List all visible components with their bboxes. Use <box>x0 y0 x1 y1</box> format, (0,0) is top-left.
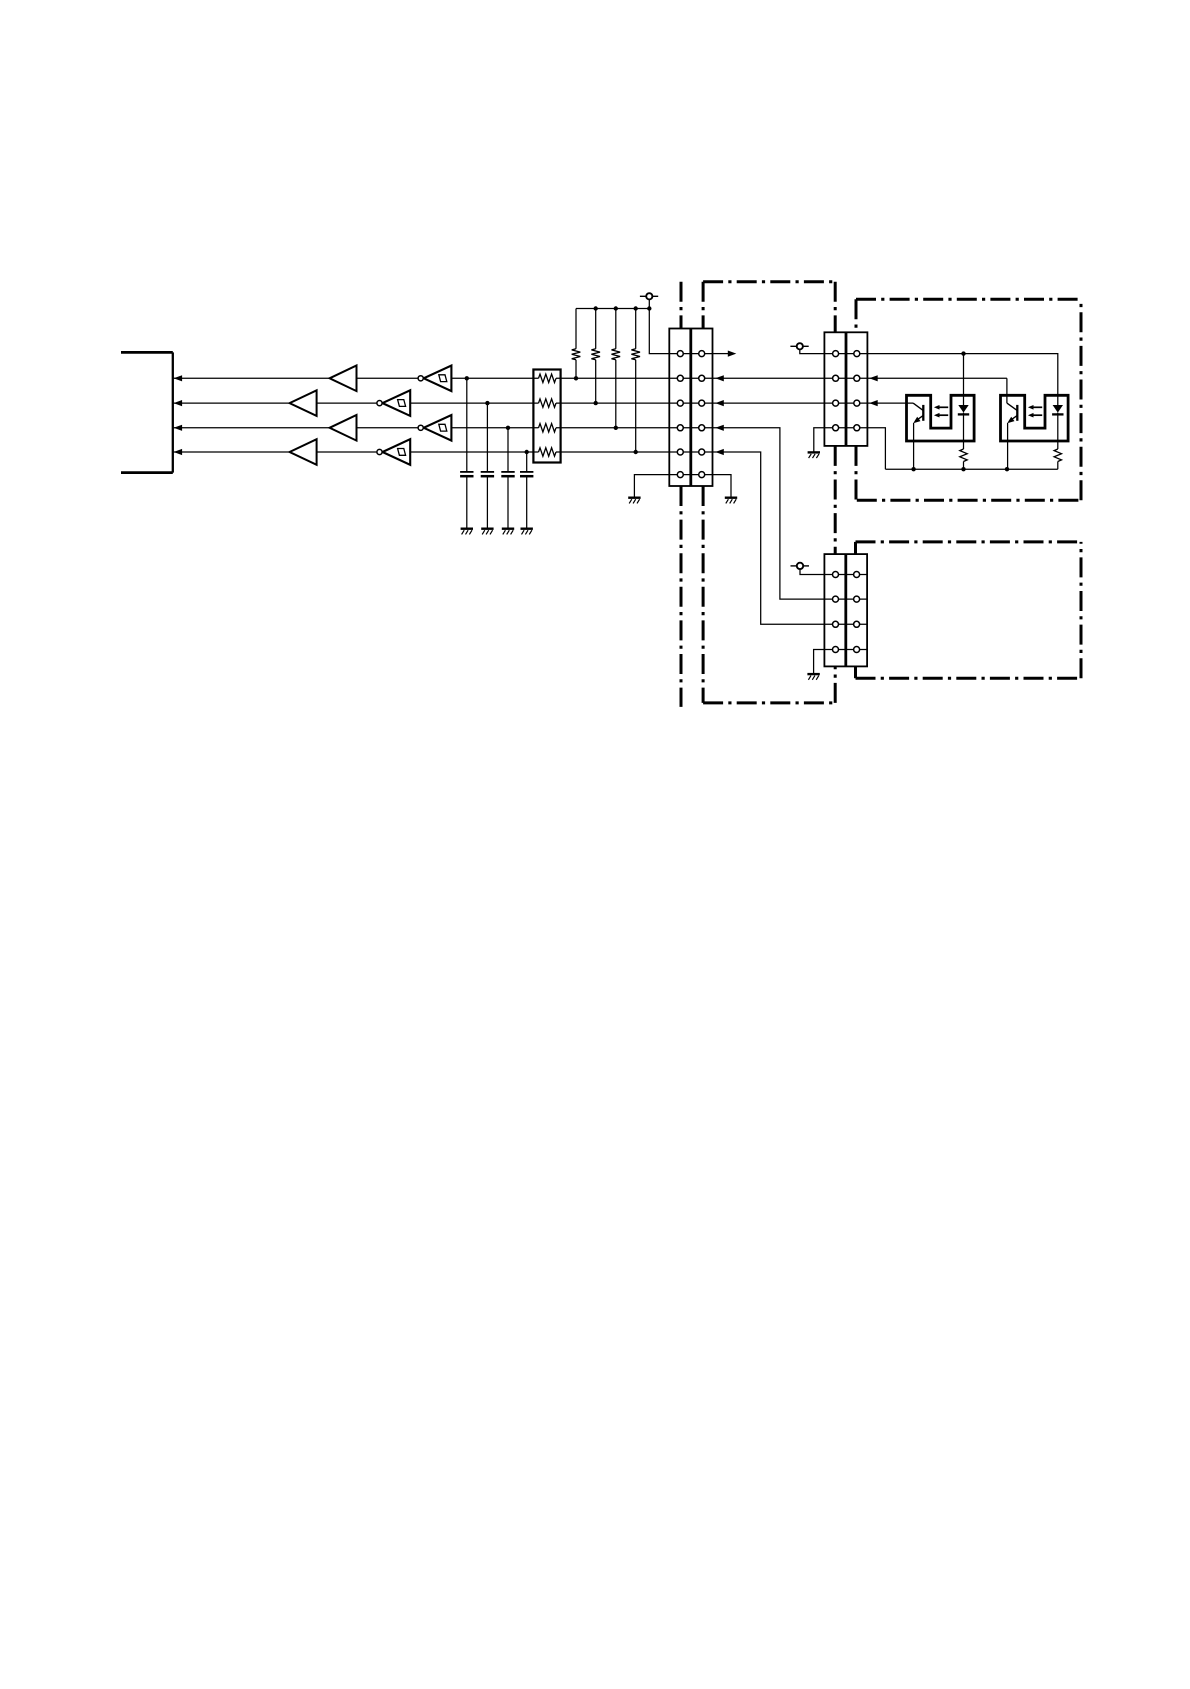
wire <box>713 400 825 406</box>
wire <box>526 476 528 528</box>
wire <box>173 449 289 455</box>
wire <box>451 377 669 379</box>
ground <box>481 529 493 535</box>
light arrows <box>934 405 948 418</box>
node <box>465 376 469 380</box>
LED PC1 <box>958 405 969 414</box>
wire <box>507 428 509 472</box>
capacitor C2 <box>481 472 494 476</box>
wire <box>713 425 825 599</box>
transistor PC1 <box>913 403 923 469</box>
connector CN3 <box>824 554 867 666</box>
wire <box>486 476 488 528</box>
host interface box <box>121 352 173 472</box>
node <box>594 401 598 405</box>
ground <box>725 498 737 504</box>
wire <box>800 569 824 574</box>
wire common rail <box>885 468 1057 470</box>
wire <box>814 428 825 452</box>
schmitt inverter U2a <box>418 366 451 392</box>
wire <box>867 354 1057 405</box>
board boundary <box>680 282 683 707</box>
node <box>961 351 965 355</box>
wire <box>410 402 669 404</box>
node <box>525 450 529 454</box>
resistor network RN1 <box>533 370 560 463</box>
wire <box>317 451 377 453</box>
power terminal P2 <box>790 343 808 349</box>
wire <box>357 427 418 429</box>
wire <box>507 476 509 528</box>
wire <box>466 378 468 472</box>
wire <box>867 400 913 406</box>
wire <box>713 475 732 498</box>
connector CN1 <box>669 329 712 487</box>
wire <box>963 354 965 405</box>
wire <box>526 452 528 472</box>
node <box>634 450 638 454</box>
node <box>911 467 1009 471</box>
optocoupler PC1 <box>907 395 975 441</box>
wire <box>1006 378 1008 403</box>
wire <box>713 449 825 624</box>
wire <box>451 427 669 429</box>
wire VCC bus <box>576 308 649 310</box>
node <box>506 426 510 430</box>
board boundary <box>856 542 1082 678</box>
board boundary <box>856 299 1081 500</box>
wire <box>410 451 669 453</box>
schmitt inverter U2b <box>377 390 410 416</box>
power terminal P1 <box>640 293 658 299</box>
power terminal P3 <box>791 563 810 569</box>
resistor R13 <box>612 309 621 428</box>
resistor R12 <box>591 309 600 404</box>
ground <box>628 498 640 504</box>
LED PC2 <box>1052 405 1063 414</box>
schmitt inverter U2d <box>377 439 410 465</box>
wire <box>357 377 418 379</box>
resistor RN1-1 <box>539 374 557 382</box>
wire <box>800 350 825 354</box>
wire <box>713 351 737 357</box>
transistor PC2 <box>1007 403 1017 469</box>
resistor RN1-3 <box>539 424 557 432</box>
wire <box>713 375 825 381</box>
ground <box>502 529 514 535</box>
ground <box>461 529 473 535</box>
capacitor C3 <box>501 472 514 476</box>
buffer U1a <box>330 366 357 392</box>
wire <box>173 425 329 431</box>
schmitt inverter U2c <box>418 415 451 441</box>
wire <box>867 428 885 469</box>
wire <box>486 403 488 472</box>
wire <box>634 475 669 498</box>
connector CN2 <box>824 332 867 446</box>
resistor PC1R <box>960 414 967 469</box>
resistor RN1-4 <box>539 448 557 456</box>
node <box>574 376 578 380</box>
ground <box>521 529 533 535</box>
resistor RN1-2 <box>539 399 557 407</box>
wire <box>867 375 1007 381</box>
wire <box>173 375 329 381</box>
node <box>614 426 618 430</box>
capacitor C1 <box>460 472 473 476</box>
wire <box>649 299 669 353</box>
node <box>485 401 489 405</box>
wire <box>466 476 468 528</box>
buffer U1c <box>330 415 357 441</box>
ground <box>808 452 820 458</box>
wire <box>317 402 377 404</box>
wire <box>173 400 289 406</box>
optocoupler PC2 <box>1001 395 1069 441</box>
capacitor C4 <box>520 472 533 476</box>
resistor PC2R <box>1054 414 1061 469</box>
ground <box>807 674 819 680</box>
buffer U1b <box>290 390 317 416</box>
light arrows <box>1028 405 1042 418</box>
node <box>594 306 652 310</box>
board boundary <box>703 282 835 703</box>
resistor R14 <box>631 309 640 453</box>
buffer U1d <box>290 439 317 465</box>
resistor R11 <box>572 309 581 379</box>
wire <box>814 650 825 674</box>
